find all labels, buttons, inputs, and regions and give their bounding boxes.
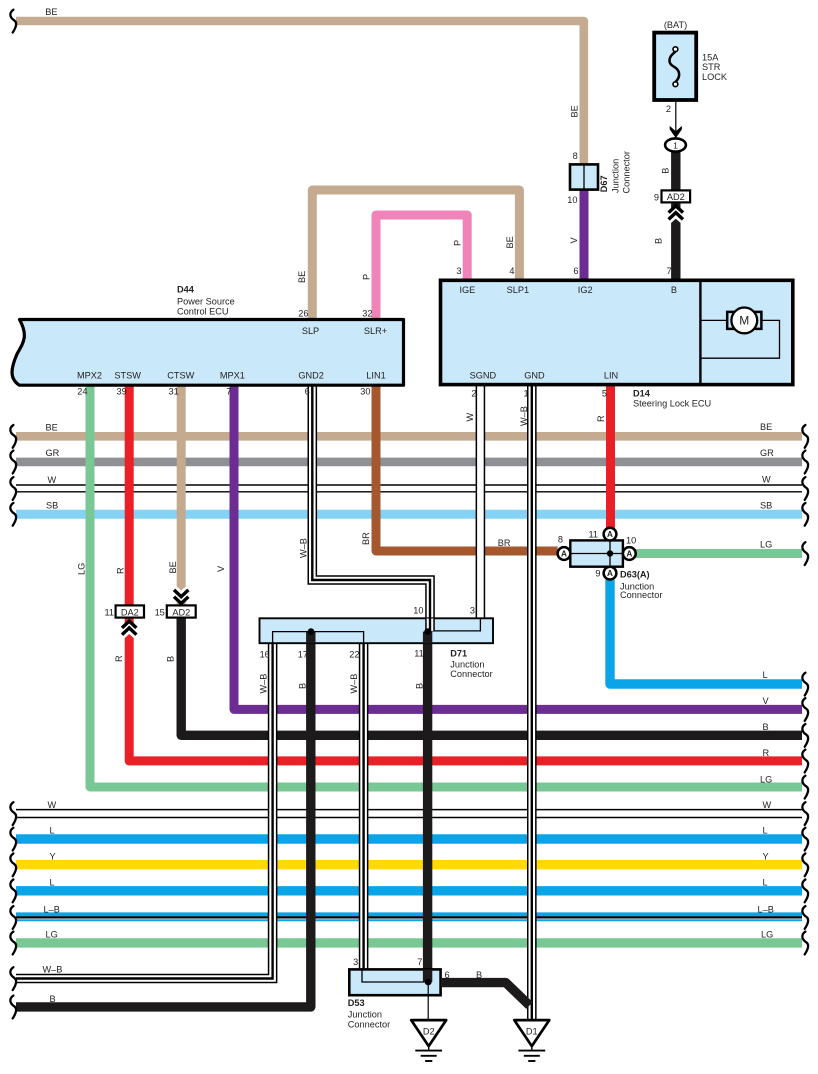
break: [10, 853, 16, 876]
break: [802, 802, 808, 825]
wire W-B GND from D14 to ground D1: [527, 385, 537, 1020]
wire LG bus lower: [16, 938, 802, 947]
svg-text:D53: D53: [348, 998, 365, 1008]
svg-text:B: B: [671, 285, 677, 295]
svg-text:SB: SB: [760, 501, 772, 511]
wire B terminal 1 to AD2: [671, 151, 680, 191]
wire BE from left edge to D67 pin 8: [16, 21, 584, 164]
svg-text:STSW: STSW: [114, 371, 141, 381]
svg-text:5: 5: [602, 389, 607, 399]
terminal A left (pin 8): [558, 547, 571, 560]
break: [802, 932, 808, 955]
break: [802, 477, 808, 500]
svg-text:15A: 15A: [702, 52, 719, 62]
junction connector D63(A): [570, 540, 623, 566]
svg-text:D2: D2: [423, 1026, 435, 1036]
svg-text:11: 11: [588, 529, 598, 539]
break: [802, 698, 808, 721]
svg-text:7: 7: [667, 266, 672, 276]
wire from fuse to terminal 1: [675, 100, 677, 131]
break: [802, 853, 808, 876]
wire B D53 pin 7 junction into box: [423, 969, 432, 982]
break: [802, 828, 808, 851]
break: [802, 542, 808, 565]
svg-text:M: M: [739, 314, 749, 328]
wire L from D63 pin 9 to right edge: [610, 580, 802, 684]
svg-text:3: 3: [470, 605, 475, 615]
svg-text:B: B: [50, 994, 56, 1004]
svg-text:Control ECU: Control ECU: [177, 307, 229, 317]
svg-text:IG2: IG2: [578, 285, 593, 295]
svg-text:P: P: [452, 240, 462, 246]
svg-text:W: W: [48, 800, 57, 810]
wire W-B bottom bus to D71 pin 16: [16, 643, 273, 978]
svg-text:LIN1: LIN1: [366, 371, 385, 381]
wire B from AD2 to right edge: [181, 618, 802, 736]
svg-text:R: R: [596, 415, 606, 422]
svg-text:2: 2: [471, 389, 476, 399]
svg-text:W: W: [762, 475, 771, 485]
svg-text:17: 17: [298, 650, 308, 660]
svg-text:W–B: W–B: [259, 674, 269, 694]
svg-text:W–B: W–B: [519, 406, 529, 426]
svg-text:10: 10: [567, 195, 577, 205]
wire L-B bus: [16, 912, 802, 916]
svg-text:V: V: [763, 696, 770, 706]
svg-text:BE: BE: [505, 236, 515, 248]
svg-text:9: 9: [595, 569, 600, 579]
wire BE bus: [16, 432, 802, 441]
break: [10, 906, 16, 929]
svg-text:4: 4: [509, 266, 514, 276]
break: [10, 828, 16, 851]
chevron above AD2 left: [174, 586, 189, 603]
svg-text:6: 6: [445, 970, 450, 980]
svg-text:B: B: [414, 683, 424, 689]
svg-text:MPX2: MPX2: [77, 371, 102, 381]
svg-text:L–B: L–B: [758, 904, 774, 914]
junction dot D71 pin 17: [308, 628, 315, 635]
svg-text:Connector: Connector: [450, 669, 492, 679]
junction connector D67: [570, 164, 598, 189]
connector AD2 (left): [167, 605, 196, 617]
wire P from D44 SLR+ to D14 IGE: [376, 215, 467, 320]
svg-text:Steering Lock ECU: Steering Lock ECU: [633, 399, 711, 409]
svg-text:A: A: [607, 569, 613, 578]
chevron below AD2 top: [668, 206, 683, 223]
wire B AD2 to D14 pin 7: [671, 202, 680, 281]
wire V from D67 pin 10 to D14 IG2: [580, 190, 589, 282]
svg-text:6: 6: [305, 387, 310, 397]
svg-text:9: 9: [654, 192, 659, 202]
svg-text:Power Source: Power Source: [177, 297, 235, 307]
ECU D44 Power Source Control ECU: [12, 320, 403, 386]
svg-text:6: 6: [573, 266, 578, 276]
wire Y bus: [16, 860, 802, 869]
svg-text:SB: SB: [46, 501, 58, 511]
break: [10, 477, 16, 500]
wire B pin 11 inside D71: [423, 632, 432, 644]
svg-text:D44: D44: [177, 285, 195, 295]
svg-text:W: W: [465, 413, 475, 422]
svg-text:D71: D71: [450, 649, 467, 659]
chevron below DA2: [122, 621, 137, 638]
svg-text:1: 1: [673, 140, 678, 150]
svg-text:LOCK: LOCK: [702, 72, 728, 82]
svg-text:AD2: AD2: [667, 192, 685, 202]
svg-text:R: R: [114, 655, 124, 662]
svg-text:Connector: Connector: [621, 151, 631, 193]
svg-text:L: L: [50, 878, 55, 888]
terminal A top (pin 11): [604, 528, 617, 541]
svg-text:1: 1: [523, 389, 528, 399]
svg-text:D63(A): D63(A): [620, 570, 650, 580]
break: [802, 503, 808, 526]
svg-text:B: B: [654, 238, 664, 244]
fuse 15A STR LOCK: [654, 33, 696, 100]
svg-text:AD2: AD2: [172, 607, 190, 617]
svg-text:B: B: [298, 683, 308, 689]
svg-text:IGE: IGE: [459, 285, 475, 295]
junction connector D53: [349, 969, 440, 995]
svg-text:8: 8: [558, 535, 563, 545]
svg-text:BE: BE: [297, 271, 307, 283]
svg-text:SLP1: SLP1: [507, 285, 529, 295]
svg-text:30: 30: [360, 387, 370, 397]
svg-text:Y: Y: [50, 852, 56, 862]
svg-text:R: R: [763, 748, 770, 758]
svg-text:7: 7: [226, 387, 231, 397]
svg-text:SGND: SGND: [470, 371, 497, 381]
svg-text:7: 7: [417, 957, 422, 967]
wire LG MPX2 from D44 to right edge: [90, 385, 802, 787]
svg-text:BR: BR: [361, 532, 371, 545]
svg-text:8: 8: [573, 151, 578, 161]
svg-text:Junction: Junction: [611, 159, 621, 193]
svg-text:GR: GR: [46, 448, 60, 458]
break: [10, 932, 16, 955]
wire L bus 2: [16, 886, 802, 895]
svg-text:(BAT): (BAT): [664, 20, 687, 30]
svg-text:P: P: [362, 274, 372, 280]
svg-text:B: B: [763, 722, 769, 732]
svg-text:BE: BE: [46, 423, 58, 433]
svg-text:W–B: W–B: [299, 538, 309, 558]
wire R STSW from D44 to DA2: [125, 385, 134, 605]
wire B pin 17 inside D71: [306, 632, 315, 644]
break: [802, 776, 808, 799]
svg-text:DA2: DA2: [121, 607, 139, 617]
wire B D71 pin 11 to D53 pin 7: [423, 632, 432, 982]
terminal A bottom (pin 9): [604, 567, 617, 580]
svg-text:LG: LG: [760, 540, 772, 550]
svg-text:BE: BE: [45, 7, 57, 17]
svg-text:Connector: Connector: [620, 590, 662, 600]
wire W-B GND2 from D44 to D71 pin 10: [312, 385, 430, 631]
wire GR bus: [16, 458, 802, 467]
break: [802, 750, 808, 773]
svg-text:32: 32: [362, 308, 372, 318]
svg-text:Junction: Junction: [348, 1010, 382, 1020]
wire D53 to ground D2: [427, 982, 429, 1021]
wire W SGND from D14 to D71 pin 3: [476, 385, 486, 618]
svg-text:BE: BE: [168, 561, 178, 573]
break: [10, 996, 16, 1019]
svg-text:Connector: Connector: [348, 1019, 390, 1029]
svg-text:V: V: [216, 565, 226, 572]
svg-text:W–B: W–B: [349, 674, 359, 694]
break: [10, 503, 16, 526]
svg-text:GND2: GND2: [298, 371, 324, 381]
break: [802, 673, 808, 696]
svg-text:L–B: L–B: [44, 904, 60, 914]
svg-text:BR: BR: [498, 538, 511, 548]
svg-text:V: V: [569, 237, 579, 244]
wire LG from D63 pin 10 to right edge: [636, 549, 802, 558]
svg-text:39: 39: [116, 387, 126, 397]
svg-text:LG: LG: [77, 563, 87, 575]
wire W bus: [16, 484, 802, 486]
wire BE from D44 SLP to D14 SLP1: [312, 190, 519, 320]
junction dot D71 pin 10/11: [424, 628, 431, 635]
break: [802, 724, 808, 747]
wire B D53 pin 6 to ground D1: [441, 983, 530, 1006]
wire W-B pin 10 inside D71: [425, 619, 435, 632]
svg-text:26: 26: [298, 308, 308, 318]
svg-text:L: L: [763, 670, 768, 680]
break: [10, 425, 16, 448]
svg-text:LG: LG: [761, 930, 773, 940]
svg-text:W: W: [763, 800, 772, 810]
svg-text:GND: GND: [524, 371, 545, 381]
svg-text:L: L: [763, 878, 768, 888]
svg-text:11: 11: [104, 607, 114, 617]
wire R LIN from D14 to D63: [606, 385, 615, 527]
ground D1: [514, 1020, 549, 1061]
svg-text:MPX1: MPX1: [220, 371, 245, 381]
svg-text:Y: Y: [763, 852, 769, 862]
svg-text:A: A: [561, 550, 567, 559]
wire W-B D71 pin 22 to D53 pin 3: [359, 643, 369, 969]
svg-text:3: 3: [456, 266, 461, 276]
break: [10, 880, 16, 903]
svg-text:22: 22: [349, 650, 359, 660]
svg-text:L: L: [50, 826, 55, 836]
svg-text:2: 2: [666, 104, 671, 114]
svg-text:16: 16: [260, 650, 270, 660]
svg-text:W–B: W–B: [43, 965, 63, 975]
svg-text:R: R: [116, 567, 126, 574]
ground D2: [411, 1020, 446, 1061]
svg-text:D67: D67: [599, 175, 609, 192]
svg-text:10: 10: [413, 605, 423, 615]
svg-text:3: 3: [353, 957, 358, 967]
svg-text:11: 11: [414, 649, 424, 659]
wire BE CTSW from D44 to AD2: [177, 385, 186, 605]
svg-text:B: B: [660, 168, 670, 174]
wire L bus 1: [16, 834, 802, 843]
wire W bus lower: [16, 809, 802, 811]
svg-text:SLP: SLP: [302, 326, 319, 336]
motor M inside D14: [700, 319, 727, 321]
terminal A right (pin 10): [623, 547, 636, 560]
wire BR LIN1 from D44 to D63 pin 8: [376, 385, 558, 551]
svg-text:B: B: [476, 970, 482, 980]
svg-text:W: W: [48, 475, 57, 485]
break: [10, 451, 16, 474]
svg-text:15: 15: [155, 607, 165, 617]
arrow into terminal 1: [670, 126, 682, 137]
svg-text:LG: LG: [46, 930, 58, 940]
svg-text:D14: D14: [633, 389, 651, 399]
wire R from DA2 to right edge: [129, 618, 802, 761]
svg-text:GR: GR: [760, 448, 774, 458]
svg-text:B: B: [166, 656, 176, 662]
wire V MPX1 from D44 to right edge: [234, 385, 802, 709]
wire SB bus: [16, 510, 802, 519]
svg-text:BE: BE: [760, 422, 772, 432]
break: [10, 10, 16, 33]
svg-text:CTSW: CTSW: [167, 371, 194, 381]
break: [802, 425, 808, 448]
break: [802, 880, 808, 903]
connector DA2: [116, 605, 144, 617]
svg-text:L: L: [763, 826, 768, 836]
svg-text:31: 31: [168, 387, 178, 397]
terminal 1: [665, 138, 686, 151]
svg-text:A: A: [607, 530, 613, 539]
wire B bottom bus to D71 pin 17: [16, 632, 311, 1007]
svg-text:24: 24: [77, 387, 87, 397]
junction connector D71: [260, 618, 494, 643]
break: [802, 451, 808, 474]
connector AD2 (top): [662, 190, 691, 202]
svg-text:D1: D1: [526, 1026, 538, 1036]
svg-text:BE: BE: [570, 105, 580, 117]
break: [10, 802, 16, 825]
svg-text:STR: STR: [702, 62, 721, 72]
break: [10, 967, 16, 990]
break: [802, 906, 808, 929]
ECU D14 Steering Lock ECU: [441, 280, 793, 384]
svg-text:LG: LG: [760, 775, 772, 785]
svg-text:10: 10: [626, 535, 636, 545]
svg-text:LIN: LIN: [604, 371, 618, 381]
svg-text:A: A: [626, 550, 632, 559]
svg-text:SLR+: SLR+: [364, 326, 387, 336]
